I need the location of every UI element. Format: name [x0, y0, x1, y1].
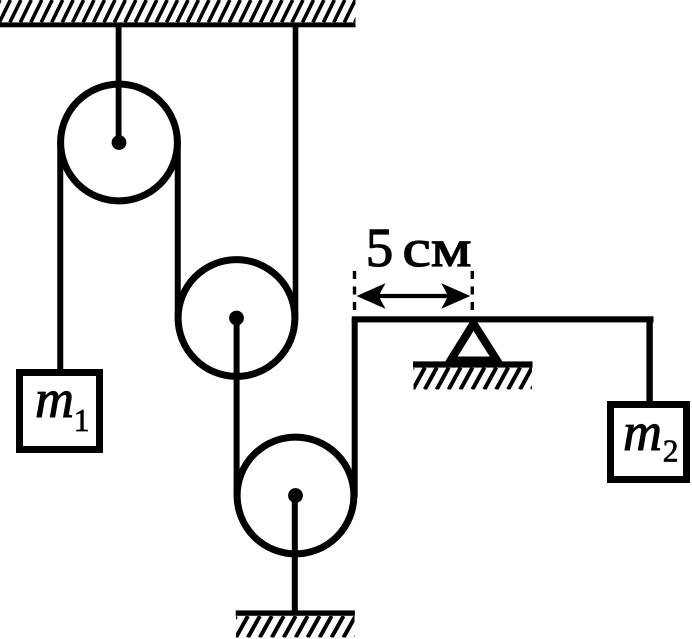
lever beam	[352, 316, 654, 322]
svg-text:1: 1	[74, 403, 90, 438]
pulley P3 (fixed to floor, bottom)	[237, 437, 354, 554]
svg-text:см: см	[402, 220, 471, 278]
mass m1 box	[20, 373, 100, 450]
dimension double arrow (5 cm)	[357, 283, 471, 309]
pulley P2 (movable, middle)	[178, 260, 295, 377]
rope: middle pulley axle down to bottom pulley	[234, 318, 240, 497]
rope: left pulley to mass m1	[57, 142, 63, 372]
axle rod: bottom pulley to floor anchor	[292, 495, 298, 612]
mass m2 box	[611, 405, 687, 480]
svg-text:5: 5	[366, 217, 394, 278]
svg-text:m: m	[35, 369, 74, 429]
floor anchor (hatched)	[224, 610, 367, 637]
dashed extension line (left, lever end)	[353, 271, 356, 317]
dashed extension line (right, fulcrum)	[471, 271, 474, 322]
label m2	[623, 402, 679, 468]
rope: ceiling to middle pulley	[293, 26, 299, 319]
ceiling (hatched support)	[0, 0, 376, 27]
svg-text:m: m	[623, 402, 662, 462]
rope: left pulley to middle pulley	[175, 142, 181, 319]
rope: bottom pulley up to lever left end	[352, 318, 358, 497]
fulcrum triangle	[451, 324, 498, 361]
pulley P1 (fixed, upper left)	[61, 84, 178, 201]
fulcrum ground (hatched)	[401, 361, 556, 389]
label m1	[35, 369, 90, 438]
rope: ceiling to left pulley axle	[116, 26, 122, 144]
rope: lever right end to mass m2	[646, 318, 652, 404]
svg-text:2: 2	[663, 433, 679, 468]
label 5 см	[366, 217, 472, 278]
